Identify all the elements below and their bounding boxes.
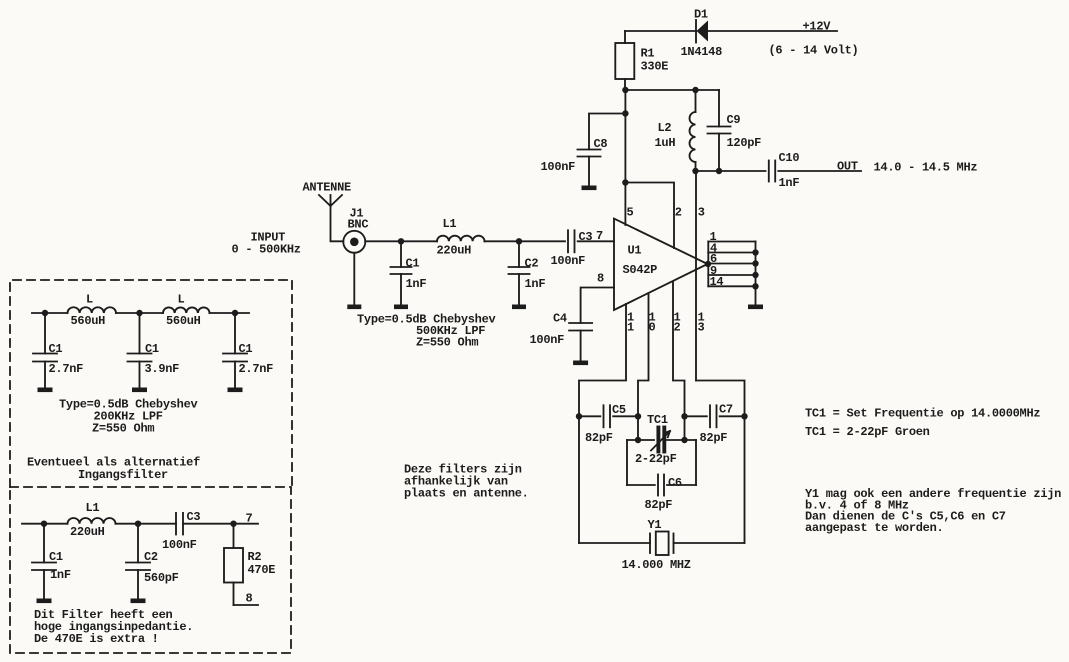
capacitor C2 filter2 (126, 524, 150, 598)
svg-text:470E: 470E (248, 563, 276, 577)
capacitor C10 (769, 161, 775, 182)
svg-text:C4: C4 (553, 312, 567, 326)
ground C2 filter2 (131, 599, 146, 604)
junction L2 top (692, 87, 698, 93)
inductor L first (68, 307, 117, 313)
junction R1 bottom (622, 87, 628, 93)
wire top rail node A (625, 89, 719, 91)
svg-text:L: L (178, 293, 185, 307)
capacitor C5 (579, 405, 638, 427)
svg-text:R1: R1 (641, 47, 655, 61)
junction C7 right (741, 413, 747, 419)
svg-text:1nF: 1nF (50, 568, 71, 582)
svg-text:C3: C3 (187, 510, 201, 524)
junction TC1 left (635, 437, 641, 443)
resistor R1 (615, 31, 634, 90)
wire ladder ground stem (755, 286, 757, 304)
svg-text:100nF: 100nF (541, 160, 576, 174)
wire C3 to pin 7 (578, 240, 614, 242)
svg-text:100nF: 100nF (530, 333, 565, 347)
capacitor C1 filter1 at x=235 (223, 313, 247, 387)
capacitor C1 (391, 241, 412, 304)
svg-text:C1: C1 (145, 342, 159, 356)
svg-text:1N4148: 1N4148 (681, 45, 723, 59)
svg-text:560uH: 560uH (166, 314, 201, 328)
junction C2 tap (516, 238, 522, 244)
antenna symbol (319, 195, 342, 206)
wire output node (696, 170, 766, 172)
junction L2 bottom (692, 168, 698, 174)
svg-text:8: 8 (597, 272, 604, 286)
wire pin 2 tap (625, 183, 674, 249)
junction TC1 right (681, 437, 687, 443)
junction filter1 node3 (232, 310, 238, 316)
svg-text:C2: C2 (525, 257, 539, 271)
svg-text:C5: C5 (612, 403, 626, 417)
svg-text:2: 2 (675, 206, 682, 220)
svg-text:220uH: 220uH (437, 244, 472, 258)
junction filter1 node1 (42, 310, 48, 316)
ground filter1 x=45 (38, 388, 53, 393)
inductor L1 filter2 (68, 518, 116, 524)
capacitor C7 (685, 405, 745, 427)
capacitor C6 loop (627, 440, 696, 496)
svg-text:0: 0 (649, 321, 656, 335)
junction filter2 node3 (230, 521, 236, 527)
svg-text:2-22pF: 2-22pF (635, 452, 677, 466)
wire right rail (744, 416, 746, 543)
svg-text:OUT: OUT (837, 160, 858, 174)
capacitor C9 (708, 90, 731, 171)
junction C9 bottom (716, 168, 722, 174)
svg-text:C7: C7 (719, 403, 733, 417)
wire pin 11 (579, 304, 626, 416)
ground C1 (394, 305, 408, 310)
wire pin 13 (696, 381, 745, 417)
ground filter1 x=139.5 (132, 388, 147, 393)
svg-text:2.7nF: 2.7nF (49, 362, 84, 376)
ground C8 (582, 186, 597, 191)
junction pin6 rail (752, 260, 758, 266)
svg-text:L: L (86, 293, 93, 307)
svg-text:L2: L2 (658, 121, 672, 135)
junction filter2 node1 (41, 521, 47, 527)
svg-text:L1: L1 (443, 217, 457, 231)
svg-text:3: 3 (698, 321, 705, 335)
junction C5 right (635, 413, 641, 419)
junction C7 left (681, 413, 687, 419)
svg-text:D1: D1 (694, 8, 708, 22)
svg-text:Z=550 Ohm: Z=550 Ohm (92, 422, 154, 436)
svg-text:BNC: BNC (348, 218, 369, 232)
diode D1 (696, 20, 708, 43)
wire main rail pin 5 (624, 90, 626, 225)
dashed box high impedance filter (10, 487, 291, 653)
wire L1 to C3 (485, 240, 566, 242)
svg-text:1nF: 1nF (525, 277, 546, 291)
svg-text:C8: C8 (594, 137, 608, 151)
svg-text:3: 3 (698, 206, 705, 220)
inductor L2 (690, 90, 696, 171)
svg-text:C10: C10 (779, 151, 800, 165)
svg-text:1: 1 (627, 321, 634, 335)
junction C5 left (576, 413, 582, 419)
junction pin14 rail (752, 283, 758, 289)
wire pin 3 / pin 13 line (695, 171, 697, 381)
dashed box alternative input filter (10, 280, 292, 487)
svg-text:5: 5 (627, 206, 634, 220)
wire filter2 rail mid (116, 523, 177, 525)
junction C8 tap (622, 110, 628, 116)
capacitor C8 (578, 114, 626, 186)
svg-text:100nF: 100nF (162, 538, 197, 552)
svg-text:1nF: 1nF (779, 176, 800, 190)
capacitor C2 (509, 241, 530, 304)
trimmer TC1 (627, 428, 696, 452)
pin ladder 1/4/6/9/14 (708, 242, 755, 287)
capacitor C1 filter2 (32, 524, 56, 598)
svg-text:(6 - 14 Volt): (6 - 14 Volt) (769, 44, 859, 58)
svg-text:3.9nF: 3.9nF (145, 362, 180, 376)
svg-text:14: 14 (710, 275, 724, 289)
ground filter1 x=235 (228, 388, 243, 393)
svg-text:C1: C1 (406, 257, 420, 271)
connector J1 BNC (343, 231, 365, 253)
svg-text:120pF: 120pF (727, 136, 762, 150)
svg-text:2.7nF: 2.7nF (239, 362, 274, 376)
svg-text:TC1 = 2-22pF Groen: TC1 = 2-22pF Groen (805, 425, 930, 439)
svg-text:Ingangsfilter: Ingangsfilter (78, 468, 168, 482)
svg-text:De 470E is extra !: De 470E is extra ! (34, 632, 159, 646)
junction apex (705, 261, 711, 267)
capacitor C3 filter2 (176, 513, 183, 535)
svg-text:82pF: 82pF (585, 431, 613, 445)
svg-text:C6: C6 (668, 476, 682, 490)
svg-text:100nF: 100nF (551, 254, 586, 268)
svg-text:560uH: 560uH (71, 314, 106, 328)
wire +12V rail to D1 (625, 30, 696, 32)
wire filter2 rail (22, 523, 68, 525)
ground C4 (573, 361, 588, 366)
wire J1 to L1 (365, 240, 437, 242)
svg-text:R2: R2 (248, 550, 262, 564)
svg-text:S042P: S042P (623, 263, 658, 277)
svg-text:8: 8 (246, 592, 253, 606)
svg-text:+12V: +12V (803, 20, 832, 34)
wire filter2 rail right (183, 523, 258, 525)
svg-text:220uH: 220uH (70, 525, 105, 539)
svg-text:82pF: 82pF (700, 431, 728, 445)
wire R2 to pin 8 (234, 604, 259, 606)
wire left rail (578, 416, 580, 543)
svg-text:C1: C1 (239, 342, 253, 356)
svg-text:330E: 330E (641, 60, 669, 74)
wire filter1 rail (32, 312, 68, 314)
wire D1 to +12V terminal (708, 30, 837, 32)
ground J1 (347, 305, 361, 310)
svg-text:C1: C1 (49, 342, 63, 356)
svg-text:L1: L1 (86, 501, 100, 515)
svg-text:C2: C2 (144, 550, 158, 564)
ground C2 (512, 305, 526, 310)
wire filter1 rail right (210, 312, 250, 314)
op-amp U1 S042P (614, 219, 708, 310)
junction filter2 node2 (135, 521, 141, 527)
inductor L1 (437, 236, 485, 242)
ground C1 filter2 (37, 599, 52, 604)
svg-text:C9: C9 (727, 113, 741, 127)
svg-text:plaats en antenne.: plaats en antenne. (404, 487, 529, 501)
junction filter1 node2 (136, 310, 142, 316)
svg-text:1uH: 1uH (655, 136, 676, 150)
wire antenna to J1 (331, 206, 344, 241)
capacitor C4 (569, 323, 592, 360)
ground ladder (748, 305, 763, 310)
svg-text:TC1: TC1 (647, 413, 668, 427)
svg-text:7: 7 (246, 512, 253, 526)
wire pin 10 (638, 293, 649, 440)
svg-text:2: 2 (674, 321, 681, 335)
svg-text:14.0 - 14.5 MHz: 14.0 - 14.5 MHz (874, 161, 978, 175)
capacitor C1 filter1 at x=139.5 (128, 313, 152, 387)
capacitor C1 filter1 at x=45 (33, 313, 57, 387)
svg-text:14.000 MHZ: 14.000 MHZ (622, 558, 691, 572)
junction pin2 tap (622, 179, 628, 185)
pin labels 11 10 12 13 (627, 311, 705, 335)
svg-text:U1: U1 (628, 244, 642, 258)
svg-text:Z=550 Ohm: Z=550 Ohm (416, 336, 478, 350)
wire pin 12 (673, 282, 685, 441)
wire J1 ground stem (353, 253, 355, 304)
inductor L second (163, 307, 210, 313)
svg-text:82pF: 82pF (645, 498, 673, 512)
svg-text:C1: C1 (49, 550, 63, 564)
svg-text:TC1 = Set Frequentie op 14.000: TC1 = Set Frequentie op 14.0000MHz (805, 407, 1040, 421)
svg-text:Y1: Y1 (648, 518, 662, 532)
junction pin4 rail (752, 249, 758, 255)
crystal Y1 (579, 532, 745, 556)
junction C1 tap (398, 238, 404, 244)
resistor R2 (224, 524, 243, 605)
junction pin9 rail (752, 272, 758, 278)
wire to OUT (778, 170, 861, 172)
svg-text:ANTENNE: ANTENNE (303, 181, 352, 195)
svg-text:aangepast te worden.: aangepast te worden. (805, 521, 943, 535)
wire filter1 rail mid (116, 312, 163, 314)
svg-text:1nF: 1nF (406, 277, 427, 291)
svg-text:560pF: 560pF (144, 571, 179, 585)
wire pin 8 (581, 288, 614, 324)
capacitor C3 (568, 230, 575, 252)
svg-text:0 - 500KHz: 0 - 500KHz (232, 243, 301, 257)
